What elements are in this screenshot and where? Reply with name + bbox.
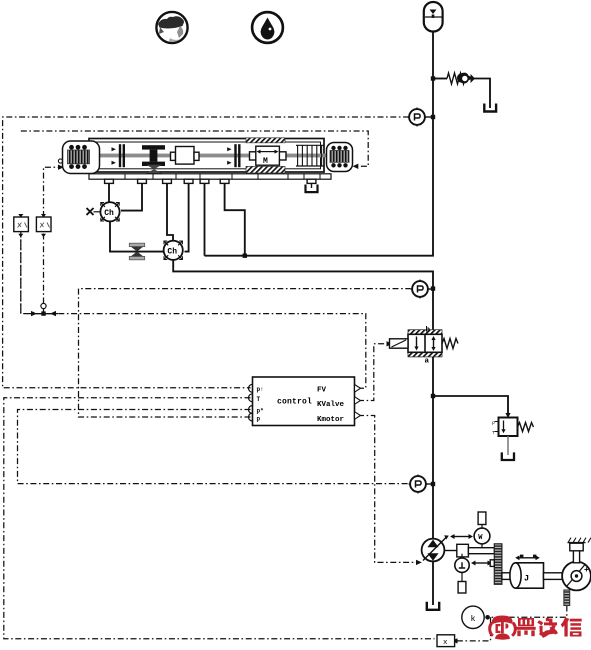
svg-text:FV: FV: [317, 387, 327, 395]
svg-text:T: T: [257, 396, 261, 403]
variable displacement pump: [422, 535, 449, 561]
wire: port PB to Ch1 right: [121, 183, 142, 210]
flapper I-beam: [142, 145, 165, 166]
port tab PF: [220, 179, 229, 183]
junction: PS2 tap: [431, 286, 435, 290]
wire: PS3 to main line: [426, 483, 433, 485]
svg-text:p*: p*: [257, 408, 264, 415]
wire: check valve to tank: [474, 79, 491, 109]
watermark character xin: [561, 618, 582, 637]
wire: Ch2 bottom to directional valve port b: [173, 260, 433, 330]
signal: Kmotor output to pump displacement: [358, 416, 416, 563]
wire: accumulator to supply corner, main supply line down to port corner: [205, 32, 434, 256]
gain block G1: [14, 214, 29, 237]
arrow: into valve actuator: [387, 341, 393, 346]
svg-text:x: x: [443, 639, 448, 647]
splitter junction node: [29, 303, 58, 316]
check valve ball seat: [457, 73, 475, 84]
wire: branch to relief valve RV: [433, 396, 508, 415]
icon: globe (simulation settings): [156, 12, 190, 43]
wire: valve V2 to pump: [432, 357, 434, 539]
spool mass M: [250, 146, 287, 166]
port tab PD: [184, 179, 193, 183]
svg-text:p: p: [257, 416, 261, 423]
pump shaft to coupling: [444, 550, 457, 552]
wire: branch to check valve: [433, 78, 447, 80]
wire: port PC to chamber Ch2 top: [167, 183, 173, 240]
shaft rack to J: [502, 573, 513, 580]
wire: port PD to Ch2 right: [185, 183, 189, 251]
svg-text:M: M: [263, 157, 268, 166]
directional valve V2: [408, 330, 442, 357]
mass friction hatch bottom: [246, 166, 285, 173]
junction: relief branch: [431, 394, 435, 398]
double arrow pump/W: [450, 534, 473, 539]
wire: port PT to tank T2: [311, 183, 313, 188]
tank T4: [427, 602, 439, 610]
spool shaft (gray): [86, 154, 327, 158]
multiplier block x: [437, 635, 455, 647]
nozzle bowtie: [146, 165, 162, 174]
arrow: into right coil: [353, 164, 359, 169]
watermark logo emblem: [488, 616, 517, 640]
wire: Ch1 bottom to orifice to Ch2: [110, 221, 163, 251]
valve V2 proportional actuator: [390, 339, 409, 348]
rack bar: [490, 544, 502, 585]
spool land wall left: [112, 144, 126, 167]
gain block G2: [36, 214, 51, 237]
port tab PC: [163, 179, 172, 183]
check valve spring: [447, 73, 465, 84]
port tab PA: [105, 179, 114, 183]
arrow: into x block: [452, 638, 458, 643]
double arrow torque/rack: [471, 561, 492, 566]
servo valve assembly body: [89, 139, 324, 173]
signal: splitter circle to gain G2: [43, 232, 45, 304]
signal: PS3 to control input 3: [18, 410, 409, 484]
orifice (sharp-edged): [129, 243, 144, 260]
signal: FV output to splitter: [45, 314, 366, 389]
signal: bottom feedback to control input 2: [4, 398, 435, 639]
signal: G1 to right torque-motor coil: [21, 131, 368, 166]
chamber Ch2: [164, 241, 183, 260]
arrow: into left coil: [58, 165, 64, 170]
torque motor left coil: [58, 141, 99, 174]
signal: PS2 to control input 4: [79, 289, 411, 417]
load mount stem: [568, 538, 591, 563]
icon: fluid properties droplet: [252, 12, 283, 43]
load flywheel: [562, 562, 591, 591]
inertia J: [510, 555, 544, 589]
wire: port PF jog to supply rail junction: [225, 183, 245, 255]
junction: PS3 tap: [431, 482, 435, 486]
watermark character da: [537, 618, 558, 638]
wire: port PA to chamber Ch1: [108, 183, 110, 202]
junction: PS1 tap: [431, 115, 435, 119]
junction: k output node: [485, 615, 490, 620]
torque sensor: [455, 554, 469, 593]
port tab PT: [307, 179, 316, 183]
wire: PS2 to main line: [428, 288, 433, 290]
svg-text:Kmotor: Kmotor: [317, 416, 344, 424]
arrow: into pump control: [416, 560, 422, 565]
port tab PE: [200, 179, 209, 183]
svg-text:p: p: [492, 421, 495, 426]
speed gain k: [462, 606, 484, 628]
wire: port PE down to supply rail: [204, 183, 206, 255]
mass friction hatch top: [246, 138, 285, 143]
valve bottom port plate: [89, 174, 331, 179]
valve V2 spring: [442, 339, 458, 349]
wire: RV to tank T3: [507, 436, 509, 455]
watermark character ding: [516, 618, 535, 636]
svg-text:a: a: [425, 358, 430, 366]
svg-text:+: +: [584, 566, 589, 575]
centering springs: [296, 145, 324, 166]
signal: k/x link under watermark: [458, 617, 491, 641]
chamber Ch1: [100, 202, 119, 221]
signal: PS1 to control input 1: [3, 117, 410, 388]
speed sensor W: [474, 512, 490, 548]
signal: G2 to left torque-motor coil: [44, 167, 59, 217]
brake bar below load: [564, 590, 570, 606]
signal: splitter to gain G1 (left branch): [21, 217, 42, 314]
svg-text:Ch: Ch: [167, 248, 177, 257]
signal: load brake chain to k sensor: [490, 606, 567, 618]
svg-text:b: b: [426, 327, 431, 335]
spool land wall right: [227, 144, 240, 167]
coupling block: [457, 544, 469, 557]
svg-text:J: J: [524, 574, 529, 584]
wire: PS1 to main line: [425, 116, 433, 118]
shaft J to load: [544, 573, 564, 580]
svg-text:T: T: [492, 430, 495, 436]
torque motor right coil: [327, 143, 353, 172]
svg-text:KValve: KValve: [317, 401, 345, 409]
pressure sensor PS1: [408, 108, 427, 127]
shaft pump-side: [468, 548, 494, 554]
tank T1: [484, 104, 496, 112]
control block: [249, 377, 361, 426]
wire: pump to tank T4: [432, 562, 434, 606]
relief valve RV: [492, 418, 518, 437]
pressure sensor PS2: [411, 280, 430, 299]
signal: G1 lower lead: [20, 232, 22, 314]
svg-text:k: k: [471, 614, 476, 624]
tank T3: [502, 452, 514, 460]
svg-text:p↑: p↑: [257, 386, 264, 393]
port tab PB: [138, 179, 147, 183]
pressure sensor PS3: [409, 475, 428, 494]
mid chamber block: [171, 147, 200, 165]
relief valve spring: [518, 423, 534, 432]
junction: supply rail: [243, 254, 247, 258]
svg-text:Ch: Ch: [104, 209, 114, 218]
tank T2: [306, 185, 318, 193]
plug X at Ch1 west: [87, 208, 101, 215]
signal: KValve output to valve actuator: [358, 344, 387, 401]
accumulator A1: [424, 2, 443, 32]
junction: supply/check-valve branch: [431, 76, 435, 80]
svg-text:control: control: [277, 397, 312, 406]
